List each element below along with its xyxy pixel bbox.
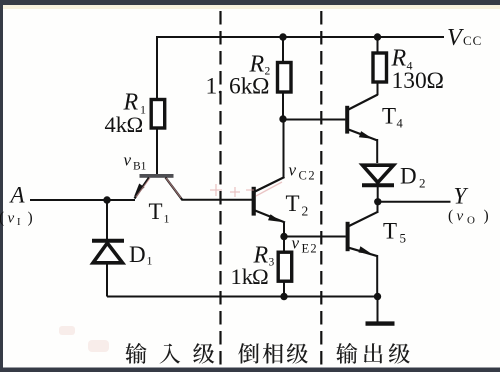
svg-text:1: 1 xyxy=(164,212,170,226)
svg-text:130: 130 xyxy=(392,68,427,94)
svg-text:I: I xyxy=(17,217,21,228)
svg-text:V: V xyxy=(447,25,464,51)
svg-text:T: T xyxy=(149,199,163,224)
svg-text:5: 5 xyxy=(400,231,407,246)
svg-text:v: v xyxy=(289,161,297,180)
svg-text:C2: C2 xyxy=(299,169,317,183)
svg-text:3: 3 xyxy=(269,257,275,269)
svg-text:Ω: Ω xyxy=(427,68,444,94)
svg-text:T: T xyxy=(382,104,396,129)
svg-text:D: D xyxy=(400,164,417,189)
svg-text:A: A xyxy=(9,183,26,208)
svg-text:4k: 4k xyxy=(105,112,128,137)
svg-text:1. 6k: 1. 6k xyxy=(206,74,253,100)
svg-text:1: 1 xyxy=(147,254,153,268)
svg-text:Y: Y xyxy=(454,184,469,209)
svg-text:4: 4 xyxy=(397,117,404,131)
svg-text:(: ( xyxy=(448,208,453,225)
svg-text:2: 2 xyxy=(302,204,309,219)
svg-text:D: D xyxy=(129,242,146,267)
svg-text:v: v xyxy=(124,151,132,170)
svg-text:1k: 1k xyxy=(231,264,254,289)
svg-text:2: 2 xyxy=(419,176,426,191)
svg-text:E2: E2 xyxy=(302,242,318,256)
svg-text:v: v xyxy=(457,209,464,225)
svg-text:CC: CC xyxy=(463,33,482,48)
svg-text:v: v xyxy=(8,211,15,227)
svg-text:(: ( xyxy=(0,210,4,227)
svg-text:O: O xyxy=(467,215,475,227)
svg-text:T: T xyxy=(286,191,300,216)
svg-text:v: v xyxy=(292,234,300,253)
svg-text:Ω: Ω xyxy=(252,264,269,289)
svg-text:): ) xyxy=(28,210,33,227)
svg-text:): ) xyxy=(484,208,489,225)
svg-text:B1: B1 xyxy=(133,161,147,173)
svg-text:Ω: Ω xyxy=(252,74,269,100)
svg-text:Ω: Ω xyxy=(127,112,144,137)
svg-text:T: T xyxy=(383,219,397,244)
